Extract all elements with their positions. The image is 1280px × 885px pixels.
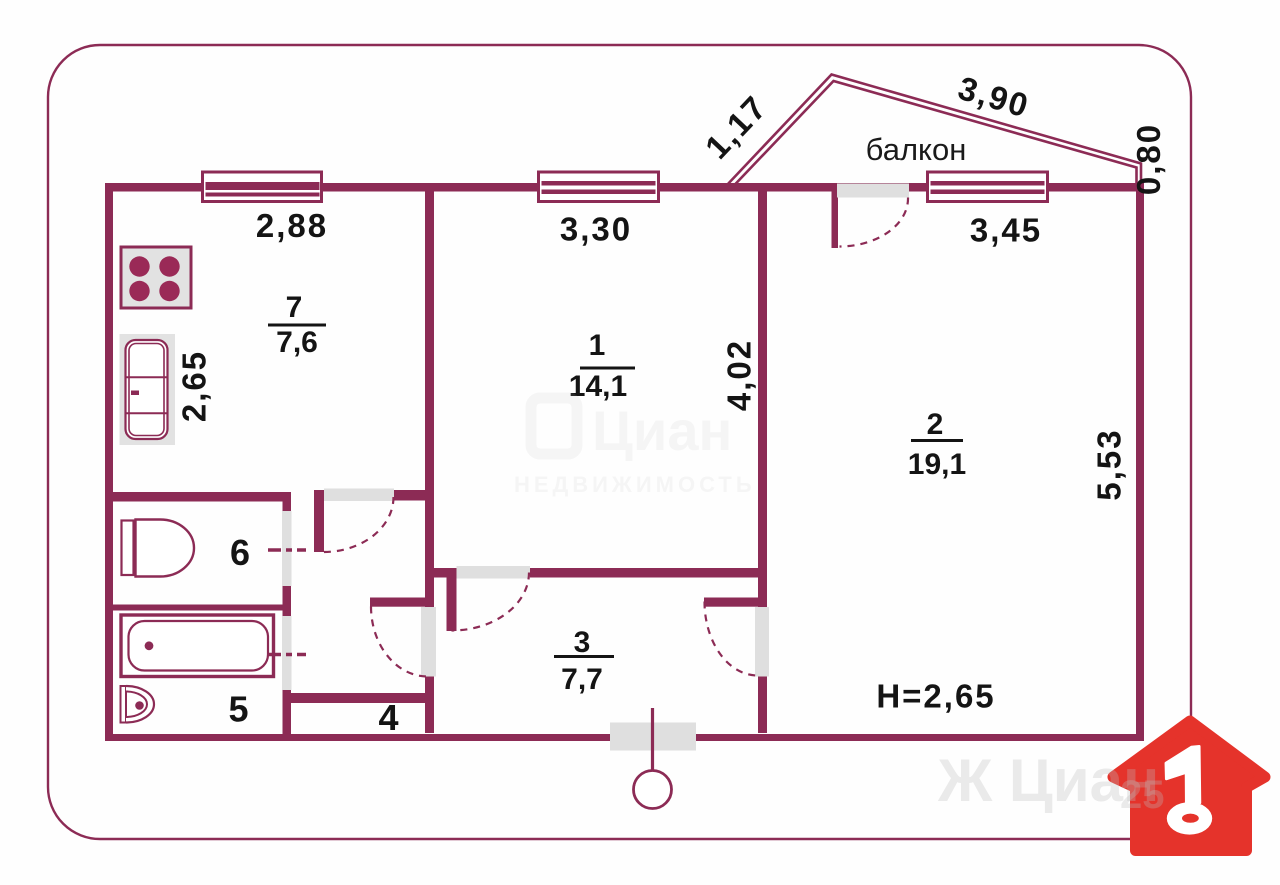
balcony door jamb (832, 191, 839, 248)
room 2 fraction line (911, 439, 963, 442)
svg-text:0,80: 0,80 (1130, 123, 1167, 195)
svg-text:балкон: балкон (866, 132, 967, 167)
entrance opening bottom wall (610, 723, 696, 751)
room 1 fraction line (580, 367, 635, 370)
svg-text:3,30: 3,30 (560, 211, 632, 248)
svg-text:5,53: 5,53 (1091, 428, 1128, 500)
room 7 fraction line (268, 324, 326, 327)
door opening room3-room2 (755, 607, 769, 677)
door arc hall (324, 497, 394, 552)
door dash room 6 (268, 548, 306, 551)
svg-text:6: 6 (230, 532, 250, 573)
svg-text:4: 4 (378, 697, 398, 738)
svg-text:H=2,65: H=2,65 (876, 678, 995, 715)
wall between room 6 and room 5 (105, 605, 291, 611)
door opening balcony (837, 184, 909, 198)
wall above room 4 (283, 693, 434, 703)
door arc room3-room2 (705, 602, 758, 676)
svg-text:7: 7 (286, 291, 303, 324)
svg-text:НЕДВИЖИМОСТЬ: НЕДВИЖИМОСТЬ (514, 472, 756, 497)
fridge (120, 334, 176, 445)
logo key numeral 1 (1166, 746, 1212, 834)
wall between room 7 and room 1 / hall and room 3 (425, 191, 434, 733)
logo house (1113, 721, 1265, 851)
outer wall bottom (105, 734, 1144, 741)
wall between rooms 6/5 and hall (283, 492, 292, 741)
svg-text:Циан: Циан (592, 399, 732, 462)
svg-text:5: 5 (228, 689, 248, 730)
svg-text:2,65: 2,65 (176, 350, 213, 422)
wall between room 1 and room 2 (758, 191, 767, 733)
watermark center mark glyph (514, 398, 1165, 817)
door opening hall (324, 489, 394, 502)
window W3 (928, 172, 1048, 202)
svg-text:25: 25 (1120, 773, 1165, 817)
svg-text:19,1: 19,1 (908, 448, 966, 481)
stove (121, 247, 191, 308)
outer wall right (1136, 183, 1144, 741)
toilet tank (122, 521, 134, 576)
balcony outer line (726, 75, 1141, 187)
door opening hall-room3 (421, 607, 436, 677)
hall door jamb stub (314, 490, 324, 552)
room 3 door jamb stub (447, 577, 457, 631)
toilet bowl (136, 520, 195, 577)
outer wall top (105, 183, 1144, 192)
kitchen bottom wall left part (105, 492, 291, 502)
outer wall left (105, 183, 113, 741)
entrance line (651, 708, 654, 772)
room 2 door stub wall (704, 598, 767, 607)
window W2 (539, 172, 659, 202)
balcony inner line (734, 81, 1137, 186)
svg-text:3: 3 (574, 626, 591, 659)
hall to room3 door stub wall (370, 598, 434, 607)
sink (121, 686, 155, 723)
window W1 (203, 172, 322, 202)
room 3 fraction line (554, 655, 614, 658)
door arc room1-room3 (452, 573, 530, 631)
door opening room 6 (282, 511, 292, 586)
svg-text:7,7: 7,7 (561, 663, 603, 696)
door opening room 5 (282, 616, 292, 690)
door opening room1-room3 (457, 566, 531, 579)
svg-text:2,88: 2,88 (256, 207, 328, 244)
door arc hall-room3 (371, 607, 428, 677)
bathtub (121, 615, 274, 677)
svg-text:3,45: 3,45 (970, 212, 1042, 249)
svg-text:7,6: 7,6 (276, 326, 318, 359)
svg-text:2: 2 (927, 408, 944, 441)
door dash room 5 (268, 653, 306, 656)
entrance circle (634, 771, 672, 809)
svg-text:1: 1 (589, 329, 606, 362)
kitchen bottom wall right part (394, 490, 425, 501)
door arc balcony (840, 198, 909, 247)
wall between room 1 and room 3 (434, 568, 767, 578)
